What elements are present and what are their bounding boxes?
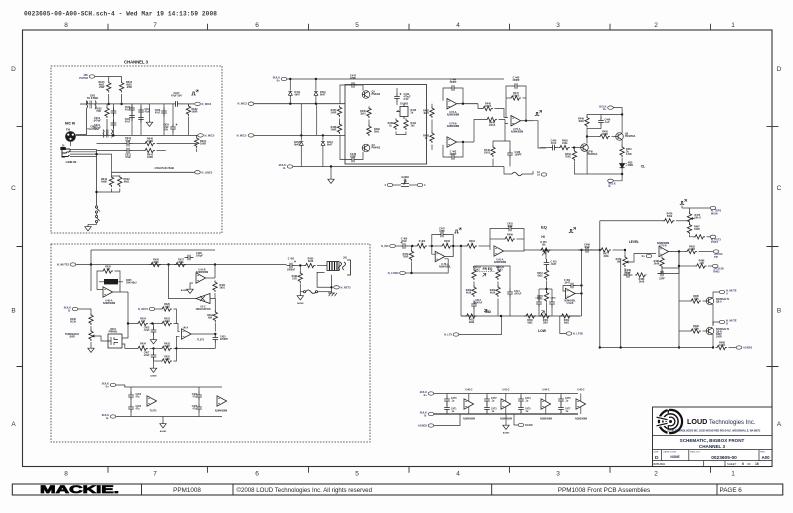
net flag gain wiper L xyxy=(385,183,393,187)
capacitor C469 xyxy=(583,247,592,253)
wire fb net2b xyxy=(667,268,680,274)
wire u47b out run xyxy=(679,251,686,253)
wire U45 vee xyxy=(580,407,582,414)
svg-text:NJM2068M: NJM2068M xyxy=(540,419,552,421)
wire C618 span xyxy=(131,104,133,135)
wire loop right drop xyxy=(214,250,216,265)
wire c414 low xyxy=(509,298,511,317)
svg-text:R4576k32: R4576k32 xyxy=(537,272,543,277)
net flag low L xyxy=(444,333,459,337)
svg-text:Technologies Inc.: Technologies Inc. xyxy=(709,420,756,426)
resistor R403 fb xyxy=(441,244,453,248)
wire R632 top xyxy=(188,104,190,106)
ground c407 xyxy=(150,366,156,372)
wire r435 right xyxy=(174,348,177,361)
junction ring loop xyxy=(330,286,332,288)
wire dgnd stub xyxy=(514,414,518,425)
junction R455 tap xyxy=(586,135,588,137)
svg-text:C 444150PF: C 444150PF xyxy=(449,79,457,85)
wire bead right xyxy=(318,291,332,293)
capacitor C407 fb xyxy=(438,232,447,238)
svg-text:J91: J91 xyxy=(343,257,348,260)
svg-text:MACKIE.: MACKIE. xyxy=(40,484,119,496)
resistor R427 mute xyxy=(175,262,187,266)
junction main row xyxy=(151,322,153,324)
wire low flag wire xyxy=(459,316,502,335)
capacitor C448 xyxy=(349,157,358,163)
wire c405 drop xyxy=(153,324,155,327)
svg-text:R631100R: R631100R xyxy=(200,140,207,146)
svg-text:R640100R: R640100R xyxy=(147,138,154,144)
wire row2 top xyxy=(434,393,578,395)
polar capacitor C629 xyxy=(170,124,177,133)
ferrite bead FB4 xyxy=(303,290,317,293)
wire switch bottom xyxy=(96,223,98,225)
wire r467 low xyxy=(690,235,695,237)
wire gain pot R xyxy=(409,184,417,186)
svg-text:PAGE 6: PAGE 6 xyxy=(720,487,743,494)
wire rail top xyxy=(87,103,173,105)
wire gain pot L xyxy=(393,184,401,186)
svg-text:R4086k19: R4086k19 xyxy=(466,289,472,294)
ground c405 xyxy=(150,338,156,344)
wire branch flag xyxy=(708,265,712,267)
resistor R455 xyxy=(599,134,611,138)
resistor R435 loop xyxy=(161,359,173,363)
wire fb post xyxy=(661,256,663,258)
resistor R401 eq xyxy=(409,250,413,262)
svg-text:C 445150PF: C 445150PF xyxy=(512,77,520,83)
resistor R441 xyxy=(404,119,408,131)
squarewave hi ref xyxy=(569,228,576,233)
wire eq low stub xyxy=(405,272,411,274)
wire cap2 span xyxy=(198,387,200,392)
wire low rail riser xyxy=(581,250,583,316)
resistor R477 xyxy=(600,248,612,252)
svg-text:SIZE: SIZE xyxy=(654,452,659,454)
wire fb2 rR xyxy=(517,238,525,240)
ground line input xyxy=(85,225,91,231)
squarewave mic out xyxy=(535,111,542,116)
wire U45A out xyxy=(521,120,533,122)
wire c469 in xyxy=(578,249,583,251)
resistor R435 ins xyxy=(304,263,316,267)
resistor R426 mute xyxy=(150,262,162,266)
svg-text:R427300k: R427300k xyxy=(178,259,184,265)
capacitor C415 fb xyxy=(506,226,515,232)
wire R449 top xyxy=(586,115,588,118)
junction c431 xyxy=(299,264,301,266)
junction hi wiper xyxy=(545,249,547,251)
capacitor C623 xyxy=(138,114,144,123)
wire pot join xyxy=(396,132,406,135)
wire R631 top xyxy=(196,135,198,137)
diode D443 xyxy=(299,141,303,147)
capacitor C407b xyxy=(151,352,157,361)
resistor R410a xyxy=(472,269,476,281)
svg-text:6: 6 xyxy=(255,22,259,29)
polar capacitor C442 xyxy=(394,93,401,102)
net flag B- preamp xyxy=(279,163,293,170)
wire q8 base xyxy=(703,300,707,302)
wire fb net2 xyxy=(658,268,663,274)
resistor R488 xyxy=(716,345,728,349)
wire row2 bot xyxy=(434,413,578,415)
wire line out xyxy=(112,171,195,173)
svg-text:C61547uF: C61547uF xyxy=(125,137,132,143)
wire gnd drop xyxy=(330,167,332,178)
wire det stub xyxy=(155,308,161,310)
XLR connector MIC IN xyxy=(65,131,76,142)
net flag N_MIC3+ xyxy=(195,102,212,106)
svg-text:R472750R: R472750R xyxy=(403,253,409,259)
junction Q7 base net xyxy=(573,146,575,148)
svg-text:R4201k98: R4201k98 xyxy=(164,303,170,309)
wire R446 low xyxy=(492,159,494,167)
junction u44b fb xyxy=(462,141,464,143)
wire switch mid xyxy=(96,213,98,215)
wire r483 left xyxy=(679,265,695,267)
svg-text:LOW: LOW xyxy=(538,329,547,333)
wire R643 top xyxy=(112,175,120,178)
svg-text:3: 3 xyxy=(556,22,560,29)
junction hot B xyxy=(315,103,317,105)
gain pot symbol bottom xyxy=(401,181,409,187)
wire C446 low xyxy=(509,159,511,167)
svg-text:22PF: 22PF xyxy=(659,278,665,281)
wire c459 up xyxy=(551,289,553,299)
op-amp U5B xyxy=(196,273,206,283)
wire C470 up xyxy=(446,394,448,396)
diode D444 xyxy=(321,141,325,147)
wire fb join r xyxy=(521,86,527,121)
capacitor C404 xyxy=(196,392,202,401)
wire r425 R xyxy=(115,271,121,285)
wire dropB xyxy=(315,79,317,90)
svg-text:B+: B+ xyxy=(642,254,646,258)
svg-text:R488100R: R488100R xyxy=(719,342,725,348)
svg-text:R4332k98: R4332k98 xyxy=(164,342,170,348)
svg-text:C41547pF: C41547pF xyxy=(507,223,513,229)
capacitor C458 xyxy=(536,299,542,308)
wire ota in xyxy=(210,299,215,303)
svg-text:R455300R: R455300R xyxy=(602,131,608,137)
svg-text:LINE IN: LINE IN xyxy=(66,160,77,164)
common-mode choke CM1 xyxy=(87,101,97,109)
wire C629 low xyxy=(172,133,174,136)
op-amp U47B xyxy=(659,246,669,256)
wire u5a out xyxy=(113,285,120,292)
op-amp U5A xyxy=(103,287,113,297)
pad switch SW3 pole B xyxy=(95,215,99,222)
resistor R439 xyxy=(394,119,398,131)
wire jack t4 xyxy=(70,155,97,157)
svg-text:LOUD TECHNOLOGIES INC. 16220: LOUD TECHNOLOGIES INC. 16220 WOOD-RED RO… xyxy=(668,430,761,433)
svg-text:4 WH PAD 25dB: 4 WH PAD 25dB xyxy=(154,166,174,170)
wire C447 right xyxy=(358,85,364,91)
wire c405 low xyxy=(153,336,155,338)
resistor R452 xyxy=(572,150,576,162)
svg-text:2: 2 xyxy=(654,471,658,478)
transistor Q3 xyxy=(362,91,370,99)
svg-text:0023605-00: 0023605-00 xyxy=(711,455,737,461)
svg-text:U45-C: U45-C xyxy=(578,389,585,392)
wire r486 left xyxy=(679,330,690,332)
wire D443 low xyxy=(300,147,302,167)
wire C449 top xyxy=(600,115,602,118)
wire row2 c xyxy=(174,347,216,349)
svg-text:R482100R: R482100R xyxy=(689,246,695,252)
wire mid box bottom xyxy=(461,315,518,317)
svg-text:6: 6 xyxy=(255,471,259,478)
wire thr drop xyxy=(78,309,91,315)
svg-text:MIC IN: MIC IN xyxy=(65,122,76,126)
wire cap span xyxy=(130,387,132,392)
zone letters right D C B A xyxy=(777,66,782,428)
capacitor C618 xyxy=(129,105,135,114)
wire u5a out right xyxy=(120,291,128,293)
wire D442 low xyxy=(315,97,317,104)
svg-text:R476500k: R476500k xyxy=(667,213,673,219)
wire c408 L xyxy=(172,258,185,265)
channel 3 input dashed enclosure xyxy=(51,66,222,233)
wire bead left xyxy=(300,291,303,293)
wire pad tap xyxy=(97,154,112,172)
transistor Q9 xyxy=(706,327,714,335)
footer bar outline xyxy=(12,484,783,495)
svg-text:DATA FILE: DATA FILE xyxy=(654,463,666,466)
capacitor C443 xyxy=(449,85,458,91)
svg-text:C407.22uF: C407.22uF xyxy=(144,352,151,357)
wire CL top rail xyxy=(587,114,622,116)
svg-text:R6156k81.25W: R6156k81.25W xyxy=(99,81,106,89)
junction rail q9 xyxy=(712,346,714,348)
junction rail lower xyxy=(112,134,114,136)
wire rail mic hot xyxy=(80,103,87,105)
wire rail flag xyxy=(729,347,737,349)
svg-text:D: D xyxy=(777,66,782,73)
wire jack ring loop xyxy=(317,272,332,287)
svg-text:D: D xyxy=(11,66,16,73)
wire U44 vcc xyxy=(545,394,547,402)
resistor R444 xyxy=(486,117,498,121)
svg-text:R641100R: R641100R xyxy=(147,154,154,160)
resistor R641 xyxy=(144,148,156,152)
svg-text:R6436k81: R6436k81 xyxy=(124,178,131,184)
svg-text:R445100 B: R445100 B xyxy=(485,103,492,109)
svg-text:R4126k98: R4126k98 xyxy=(469,319,475,324)
wire R632 low xyxy=(188,117,190,136)
resistor R461 low xyxy=(539,314,551,318)
resistor R449 xyxy=(585,116,589,128)
wire pad path1 xyxy=(97,143,124,145)
op-amp U5 pwr xyxy=(217,396,227,406)
wire row2 agnd xyxy=(434,414,460,426)
svg-text:5: 5 xyxy=(355,471,359,478)
wire fb left xyxy=(506,86,512,118)
resistor R632 xyxy=(186,105,190,117)
resistor R420 det xyxy=(161,307,173,311)
wire pad path1c xyxy=(157,143,197,145)
svg-text:8: 8 xyxy=(64,22,68,29)
wire C477 down xyxy=(560,413,562,414)
svg-text:R4424k75: R4424k75 xyxy=(423,110,429,116)
svg-text:U6-A: U6-A xyxy=(183,327,189,330)
svg-text:C61847uF: C61847uF xyxy=(125,107,131,111)
net flag B- row2 xyxy=(420,411,434,418)
op-amp U40 power pins xyxy=(464,399,474,409)
wire C449 low xyxy=(600,126,602,129)
svg-text:N_RET3: N_RET3 xyxy=(341,285,352,289)
wire fader wiper xyxy=(630,254,656,263)
wire C442 bot xyxy=(396,102,398,105)
wire R642 bottom xyxy=(97,189,112,193)
capacitor C473 xyxy=(484,404,490,413)
capacitor C459 xyxy=(549,299,555,308)
junction out node xyxy=(678,250,680,252)
op-amp U44 power pins xyxy=(541,399,551,409)
wire r455 low xyxy=(546,303,548,316)
transistor Q8 xyxy=(706,297,714,305)
ground threshold xyxy=(88,346,94,352)
svg-text:1: 1 xyxy=(731,22,735,29)
wire choke top taps xyxy=(86,101,88,105)
resistor R402 eq xyxy=(416,244,428,248)
resistor R424 xyxy=(137,321,149,325)
capacitor C403 xyxy=(128,392,134,401)
wire D441 low xyxy=(289,97,291,104)
svg-text:PPM1008 Front PCB Assemblies: PPM1008 Front PCB Assemblies xyxy=(558,487,650,494)
svg-text:R4355k36: R4355k36 xyxy=(308,258,314,264)
wire cap2 mid xyxy=(198,401,200,404)
wire R442 top xyxy=(431,104,433,108)
capacitor C615 xyxy=(124,141,133,147)
net flag B+ level xyxy=(642,254,652,258)
wire jack t3 xyxy=(70,153,97,155)
svg-text:R43656.2k: R43656.2k xyxy=(70,318,77,324)
wire loop top xyxy=(91,249,215,251)
wire R451-LED xyxy=(621,158,623,164)
resistor R431 xyxy=(213,281,217,293)
svg-text:2: 2 xyxy=(654,22,658,29)
resistor R438 xyxy=(337,123,341,135)
svg-text:C 443150PF: C 443150PF xyxy=(449,151,457,157)
wire R633 top xyxy=(106,104,108,107)
wire jack sleeve down xyxy=(331,275,333,293)
capacitor C447 xyxy=(349,82,358,88)
wire pot top2 xyxy=(682,207,690,209)
wire R633 bottom xyxy=(106,119,108,136)
resistor R410b xyxy=(496,269,500,281)
svg-text:NJM2068M: NJM2068M xyxy=(575,419,587,421)
wire pot top xyxy=(689,208,691,213)
wire gnd tap xyxy=(149,104,151,120)
capacitor C449 xyxy=(598,117,604,126)
svg-text:R4232k49: R4232k49 xyxy=(164,318,170,324)
capacitor C619 xyxy=(138,107,144,116)
wire jack t1 xyxy=(70,149,97,151)
junction CL rail xyxy=(621,113,623,115)
junction fader top xyxy=(624,249,626,251)
insert jack J91 contacts xyxy=(327,262,339,271)
svg-text:R485100k: R485100k xyxy=(693,295,699,301)
resistor R446 xyxy=(491,146,495,158)
net flag AGND out xyxy=(736,346,752,350)
wire pwr top rail2 xyxy=(124,387,126,393)
junction mute/loop xyxy=(90,263,92,265)
wire B+ rail xyxy=(287,78,504,80)
wire hi caps h xyxy=(539,288,552,290)
svg-text:C44747PF: C44747PF xyxy=(350,75,357,81)
wire r431 low xyxy=(214,293,216,299)
wire out col xyxy=(678,252,680,348)
wire u5b gnd xyxy=(190,283,193,287)
net flag jack out R xyxy=(712,264,723,273)
wire preamp to CL xyxy=(533,121,546,148)
wire pwr bot rail xyxy=(116,416,222,418)
resistor R447 xyxy=(510,96,522,100)
wire CL B+ drop xyxy=(613,108,622,115)
resistor R455 xyxy=(544,291,548,303)
capacitor C414 xyxy=(507,289,513,298)
svg-text:SCHEMATIC, BIGBOX FRONT: SCHEMATIC, BIGBOX FRONT xyxy=(680,438,745,443)
net flag eq low in xyxy=(388,271,406,275)
resistor R483 xyxy=(695,264,707,268)
wire q8 up xyxy=(712,296,714,298)
wire ring flag xyxy=(332,286,334,288)
wire q9 base xyxy=(703,330,707,332)
wire u41b out xyxy=(575,293,581,295)
junction level in fbvert xyxy=(599,249,601,251)
pot threshold xyxy=(89,330,96,342)
wire r477 out xyxy=(613,249,626,251)
capacitor C470 xyxy=(444,396,450,405)
resistor R462 low xyxy=(560,314,572,318)
wire to Q7 base xyxy=(571,147,581,149)
svg-text:N_LF3: N_LF3 xyxy=(444,333,452,337)
wire jfet drain xyxy=(122,324,128,339)
junction cold A xyxy=(300,134,302,136)
svg-text:B: B xyxy=(11,308,15,315)
resistor R467 xyxy=(687,223,691,235)
resistor R411a xyxy=(472,286,476,298)
svg-text:C: C xyxy=(777,185,782,192)
wire Q6 emit xyxy=(621,140,623,147)
wire eq mid bus xyxy=(466,245,468,247)
wire CL bottom rail xyxy=(574,173,622,175)
junction B+ A xyxy=(289,78,291,80)
svg-text:N_MIC3: N_MIC3 xyxy=(202,102,212,106)
wire mic rail lower xyxy=(97,134,198,136)
svg-text:AGND: AGND xyxy=(503,432,510,435)
wire freq hwire xyxy=(474,265,498,267)
wire level bottom rail xyxy=(600,347,713,349)
op-amp U6 pwr xyxy=(147,396,157,406)
capacitor C614 xyxy=(111,120,117,129)
insert jack bracket xyxy=(347,260,351,275)
wire r401 top xyxy=(411,246,413,251)
wire pad path2c xyxy=(157,150,166,152)
wire LED low xyxy=(621,168,623,174)
svg-text:R4812k49: R4812k49 xyxy=(654,260,660,266)
wire U45 vcc xyxy=(580,394,582,402)
wire C448 right xyxy=(358,152,364,160)
resistor R448 xyxy=(367,125,371,137)
wire r435 left xyxy=(154,360,161,362)
wire preamp outB xyxy=(474,120,486,143)
wire R445 out xyxy=(495,109,509,118)
junction eq r xyxy=(411,245,413,247)
